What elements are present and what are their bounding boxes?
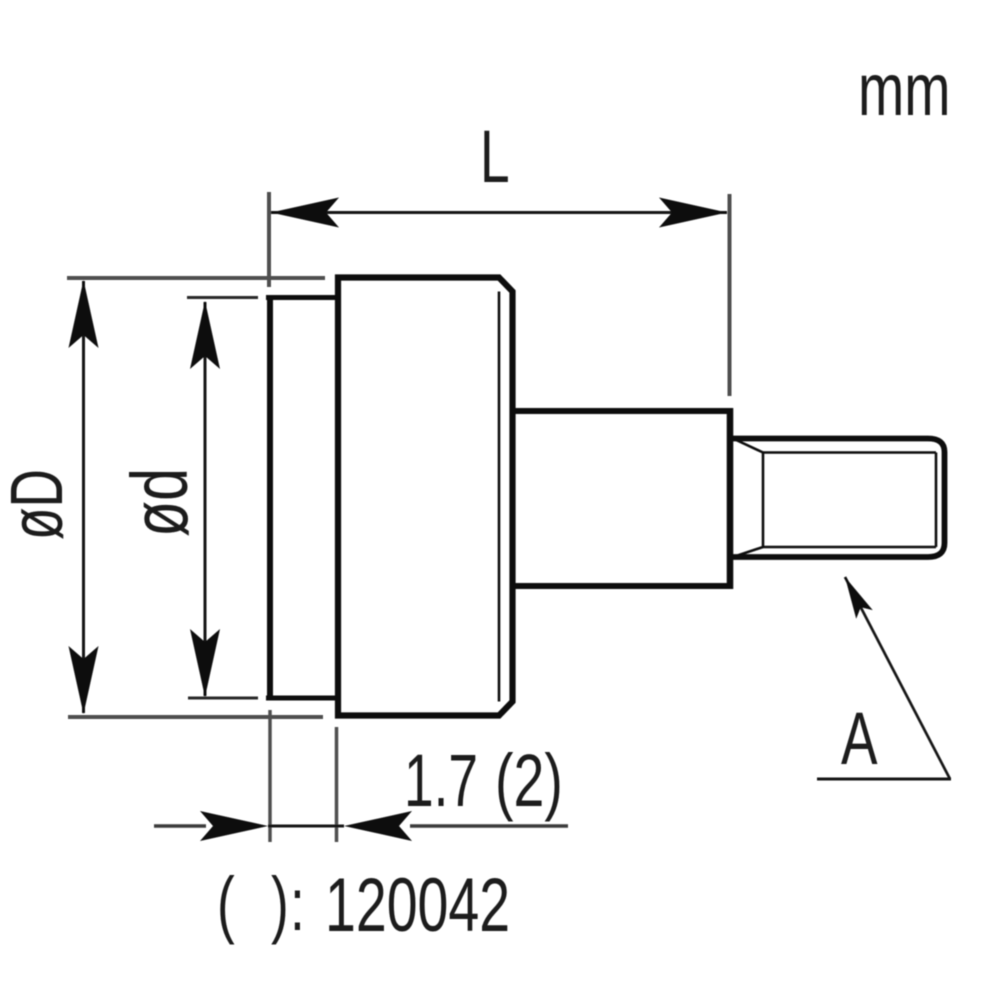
dimension 1.7: left tail line	[154, 824, 206, 828]
svg-text:): )	[271, 862, 289, 945]
part: stem top edge	[512, 408, 731, 414]
part: thread chamfer boundary left	[762, 453, 765, 548]
part: thread minor diameter bottom line	[763, 546, 936, 549]
dimension 1.7: line between arrow tips	[268, 825, 344, 828]
dimension od: bottom arrowhead	[190, 629, 220, 697]
part: threaded stud outer outline	[733, 439, 945, 558]
part: thread left chamfer top	[733, 439, 763, 453]
svg-text:A: A	[841, 697, 878, 780]
dimension L: extension line left	[267, 192, 271, 287]
svg-text:(2): (2)	[495, 739, 563, 822]
svg-text::: :	[290, 863, 305, 946]
part: thread chamfer boundary right	[935, 453, 938, 548]
dimension oD: top arrowhead	[69, 280, 99, 348]
dimension oD: extension line bottom	[68, 715, 323, 719]
part: thread minor diameter top line	[763, 451, 936, 454]
dimension oD: extension line top	[67, 276, 325, 280]
dimension od: top arrowhead	[190, 301, 220, 369]
dimension oD: bottom arrowhead	[69, 646, 99, 714]
dimension od: dimension line	[204, 302, 207, 696]
dimension L: right arrowhead	[659, 198, 727, 228]
svg-text:L: L	[480, 115, 510, 198]
view arrow A: leader line	[845, 577, 950, 779]
dimension od: extension line bottom	[188, 697, 258, 700]
dimension 1.7: extension line right	[335, 727, 339, 842]
svg-text:mm: mm	[858, 48, 950, 131]
dimension L: dimension line	[271, 211, 727, 214]
dimension oD: dimension line	[82, 281, 85, 713]
part: stem bottom edge	[512, 583, 731, 589]
dimension 1.7: extension line left	[268, 710, 272, 842]
dimension 1.7: right tail line	[410, 824, 568, 828]
part: thin contact disc left edge	[267, 296, 273, 699]
svg-text:(: (	[217, 862, 235, 945]
dimension L: left arrowhead	[271, 198, 339, 228]
view arrow A: underline	[817, 778, 951, 781]
part: body chamfer edge line	[498, 292, 501, 702]
view arrow A: arrowhead	[837, 573, 873, 619]
svg-text:ød: ød	[114, 468, 204, 537]
part: thin contact disc top edge	[266, 295, 338, 300]
part: stem right end edge	[727, 408, 734, 589]
dimension 1.7: right arrowhead pointing left	[344, 811, 412, 841]
dimension 1.7: left arrowhead pointing right	[200, 811, 268, 841]
part: thin contact disc bottom edge	[266, 696, 338, 701]
svg-text:120042: 120042	[325, 864, 510, 949]
dimension od: extension line top	[187, 296, 258, 299]
part: main cylindrical body outline with chamfered right corners	[338, 278, 513, 716]
svg-text:1.7: 1.7	[404, 739, 478, 822]
part: thread left chamfer bottom	[733, 547, 763, 557]
svg-text:øD: øD	[0, 469, 78, 540]
dimension L: extension line right	[728, 194, 732, 396]
